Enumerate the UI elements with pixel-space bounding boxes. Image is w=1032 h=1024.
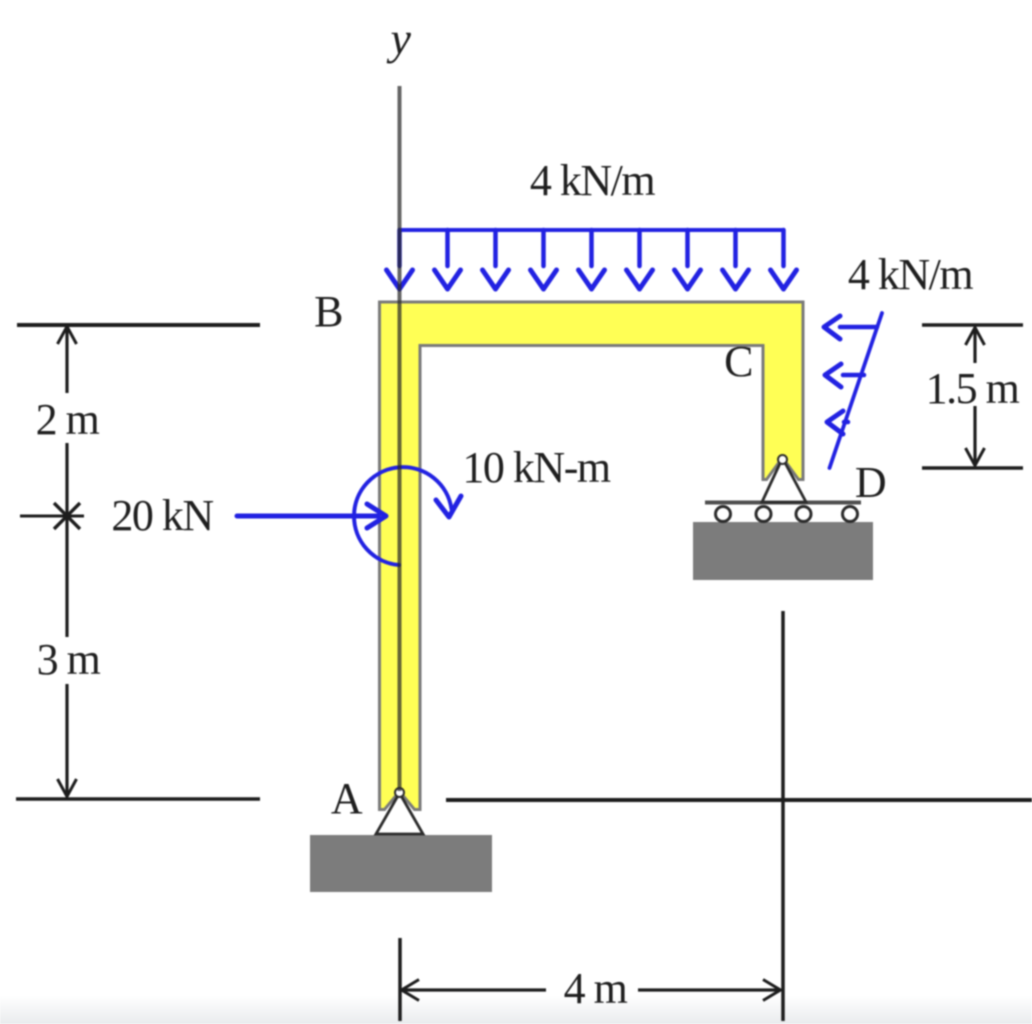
svg-text:4 m: 4 m (564, 964, 628, 1013)
y-axis line (398, 86, 402, 791)
extension line below D (781, 611, 785, 1021)
svg-text:y: y (387, 13, 412, 64)
support D roller 3 (796, 507, 811, 522)
load arrow 3 (483, 230, 509, 289)
tri load arrow 2 (825, 364, 864, 387)
svg-text:C: C (724, 337, 752, 386)
support D roller 1 (716, 507, 731, 522)
support A ground block (310, 835, 492, 892)
force 20 kN arrow (237, 504, 386, 528)
load arrow 6 (627, 230, 653, 289)
svg-text:4 kN/m: 4 kN/m (530, 156, 656, 205)
moment 10 kN-m arc (354, 467, 461, 565)
load arrow 4 (531, 230, 557, 289)
load arrow 2 (435, 230, 461, 289)
svg-text:B: B (314, 287, 342, 336)
svg-text:D: D (855, 458, 886, 507)
dim ref line bottom-left (level A) (16, 797, 260, 801)
support A pin triangle (376, 793, 423, 834)
svg-text:A: A (331, 774, 363, 823)
tri load arrow 1 (824, 316, 877, 339)
dim 1.5m bottom ref line (922, 466, 1023, 470)
dim 3m vertical line (65, 684, 68, 796)
dim 1.5m bottom arrow (966, 448, 985, 466)
x-axis ref line right of A (446, 798, 1032, 802)
extension tick below A (398, 938, 402, 1021)
svg-text:10 kN-m: 10 kN-m (462, 443, 610, 492)
dimension graphics (16, 325, 1032, 1021)
load arrow 1 (387, 230, 413, 289)
load arrow 8 (723, 230, 749, 289)
dim 3m bottom arrow (58, 779, 77, 797)
frame member ABCD (yellow) (380, 302, 804, 810)
support A pin circle (395, 788, 404, 797)
dim 4m right arrow (763, 980, 781, 1001)
svg-text:3 m: 3 m (37, 635, 101, 684)
svg-text:20 kN: 20 kN (111, 491, 213, 540)
svg-text:4 kN/m: 4 kN/m (848, 250, 974, 299)
dim 1.5m top arrow (966, 328, 985, 346)
dim 2m vertical line (65, 329, 68, 393)
support D pin circle (778, 455, 787, 464)
support D roller 4 (843, 507, 858, 522)
dim 1.5m vertical line (973, 329, 976, 363)
support D roller base line (705, 501, 861, 505)
distributed load 4 kN/m top: header line (387, 230, 797, 289)
support D pin triangle (762, 458, 806, 502)
svg-text:2 m: 2 m (36, 395, 100, 444)
load arrow 9 (771, 230, 797, 289)
dim star cross at 20 kN level (20, 515, 84, 518)
dim 4m line (403, 988, 546, 991)
support D roller 2 (756, 507, 771, 522)
svg-text:1.5 m: 1.5 m (926, 364, 1020, 413)
support D ground block (693, 522, 873, 580)
tri load arrow 3 (827, 411, 848, 434)
dim 4m left arrow (402, 980, 420, 1001)
bottom gradient strip (0, 995, 1032, 1024)
dim ref line top-left (level B) (17, 323, 260, 327)
dim 1.5m top ref line (922, 323, 1023, 327)
triangular load 4 kN/m right: hypotenuse (824, 313, 882, 468)
load arrow 7 (675, 230, 701, 289)
load arrow 5 (579, 230, 605, 289)
dim 2m top arrow (58, 327, 77, 345)
